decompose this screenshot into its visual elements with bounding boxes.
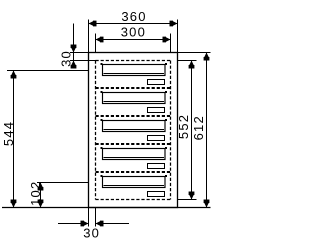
arrow 30 top up <box>71 61 77 69</box>
svg-text:612: 612 <box>191 115 206 140</box>
module row 5 rail cover inner bottom line <box>104 185 165 187</box>
dim 30 top-left line <box>73 24 75 68</box>
arrow 544 down <box>11 200 17 208</box>
module row 5 rail cover outline <box>103 177 166 188</box>
module row 4 rail cover inner bottom line <box>104 157 165 159</box>
module row 5 cover right hinge tab <box>165 175 167 177</box>
102 top extension <box>37 182 89 184</box>
module row 1 rail cover inner bottom line <box>104 73 165 75</box>
dim 102 line <box>40 183 42 208</box>
svg-text:30: 30 <box>59 50 74 67</box>
module row 5 cover left hinge tab <box>101 175 103 177</box>
arrow 612 up <box>204 53 210 61</box>
module row 4 blank plate <box>148 164 165 169</box>
module row 1 cover right hinge tab <box>165 63 167 65</box>
module area dashed frame left <box>95 61 97 200</box>
module row 3 cover left hinge tab <box>101 119 103 121</box>
module row 2 rail cover outline <box>103 93 166 104</box>
arrow 552 down <box>189 192 195 200</box>
dim 612 line <box>206 53 208 208</box>
module area top extension left <box>70 60 96 62</box>
module area dashed frame right <box>170 61 172 200</box>
arrow 102 down <box>38 200 44 208</box>
arrow 612 down <box>204 200 210 208</box>
552 bottom extension <box>178 199 197 201</box>
arrow 30 top down <box>71 45 77 53</box>
svg-text:552: 552 <box>176 114 191 139</box>
arrow 360 right <box>170 21 178 27</box>
dim 360 ext left <box>88 20 90 53</box>
dim 552 line <box>191 61 193 200</box>
arrow 300 right <box>163 37 171 43</box>
dim 300 ext left <box>95 34 97 53</box>
box top extension left <box>70 52 89 54</box>
module row 2 cover right hinge tab <box>165 91 167 93</box>
arrow 30 bottom left-pointing <box>96 221 104 227</box>
arrow 360 left <box>89 21 97 27</box>
dim 360 line <box>89 23 178 25</box>
arrow 552 up <box>189 61 195 69</box>
module area dashed frame bottom <box>96 199 171 201</box>
arrow 102 up <box>38 183 44 191</box>
arrow 544 up <box>11 71 17 79</box>
svg-text:300: 300 <box>121 25 146 40</box>
dim 544 line <box>13 71 15 208</box>
module row separator 2 <box>96 115 171 117</box>
module area dashed frame top <box>96 60 171 62</box>
module row 4 cover left hinge tab <box>101 147 103 149</box>
module row 1 rail cover outline <box>103 65 166 76</box>
arrow 30 bottom right-pointing <box>81 221 89 227</box>
svg-text:30: 30 <box>83 226 100 240</box>
box top extension right <box>178 52 211 54</box>
module row 3 rail cover outline <box>103 121 166 132</box>
svg-text:102: 102 <box>28 181 43 206</box>
module row separator 3 <box>96 143 171 145</box>
544 top extension <box>7 70 89 72</box>
module row 5 blank plate <box>148 192 165 197</box>
module row 4 rail cover outline <box>103 149 166 160</box>
module row 2 blank plate <box>148 108 165 113</box>
bottom extension line <box>2 207 211 209</box>
enclosure outer box <box>89 53 178 208</box>
module row 3 blank plate <box>148 136 165 141</box>
dim 360 ext right <box>177 20 179 53</box>
dim 300 line <box>96 39 171 41</box>
module row separator 1 <box>96 87 171 89</box>
module row 2 rail cover inner bottom line <box>104 101 165 103</box>
dim 30 bottom ext left <box>88 208 90 227</box>
module row 1 cover left hinge tab <box>101 63 103 65</box>
svg-text:360: 360 <box>121 9 146 24</box>
module row 1 blank plate <box>148 80 165 85</box>
arrow 300 left <box>96 37 104 43</box>
module row 2 cover left hinge tab <box>101 91 103 93</box>
svg-text:544: 544 <box>1 121 16 146</box>
552 top extension <box>178 60 197 62</box>
dim 30 bottom line right <box>96 223 130 225</box>
dim 30 bottom ext right <box>95 208 97 227</box>
module row 3 rail cover inner bottom line <box>104 129 165 131</box>
dim 30 bottom line left <box>58 223 89 225</box>
dim 300 ext right <box>170 34 172 53</box>
module row 4 cover right hinge tab <box>165 147 167 149</box>
module row 3 cover right hinge tab <box>165 119 167 121</box>
module row separator 4 <box>96 171 171 173</box>
